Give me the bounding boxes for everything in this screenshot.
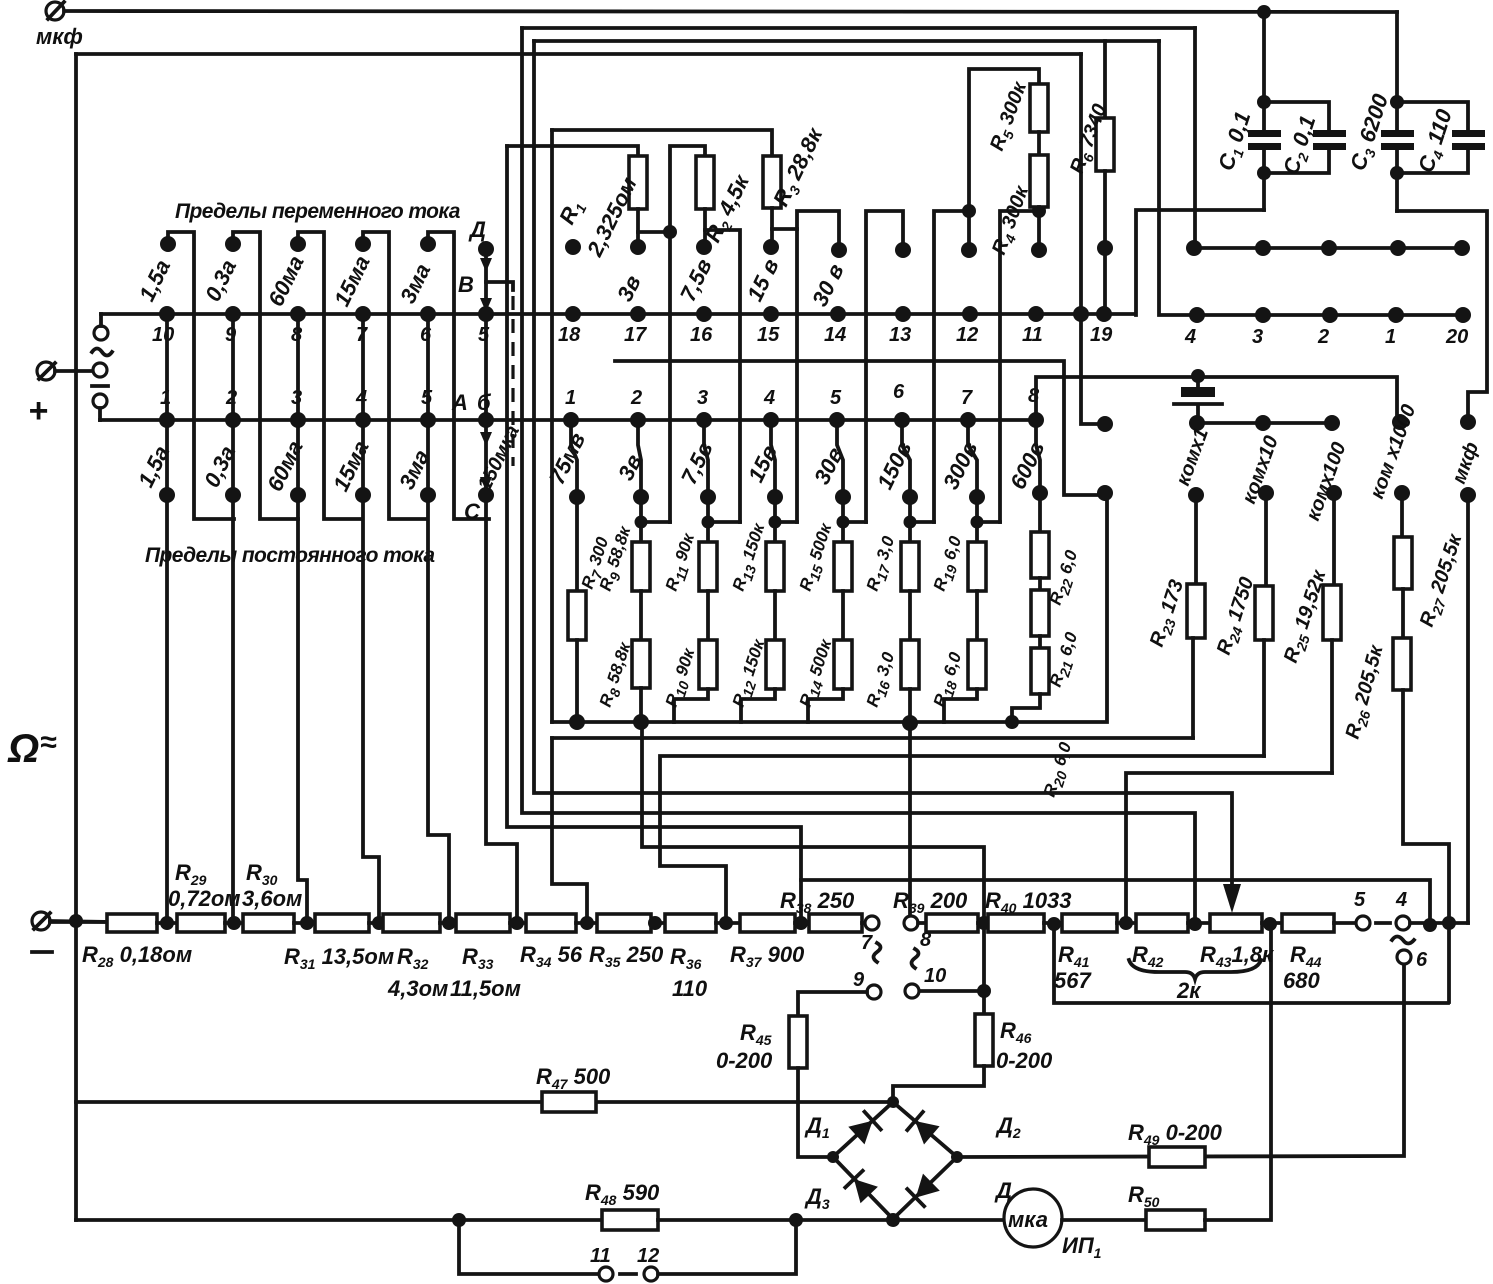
DC range dots y=495 and vertical feeds <box>159 487 436 503</box>
svg-text:4: 4 <box>1184 326 1196 348</box>
svg-text:R48 590: R48 590 <box>585 1180 660 1208</box>
capacitor C3 <box>1345 12 1414 211</box>
svg-text:2: 2 <box>1317 326 1329 348</box>
svg-text:R34 56: R34 56 <box>520 942 583 970</box>
resistor R35 with label <box>589 914 665 970</box>
symbol ~ above contact 6 <box>1392 937 1414 944</box>
node junction rail/R45 loop x=459 <box>452 1213 466 1227</box>
wire lower contact row y=420 <box>100 418 1036 422</box>
wire left frame vertical x=76 (y54 bus down to minus bus and bottom rail) <box>74 54 78 1220</box>
terminal мкф (top left) <box>36 2 83 49</box>
contact 6 open circle <box>1397 949 1428 971</box>
resistor R42 with label <box>1132 914 1210 970</box>
selector contact ~ (left) <box>92 314 112 356</box>
upper row contact dots middle group <box>558 306 1113 346</box>
svg-text:2: 2 <box>225 387 237 409</box>
wire box outline bottom y=1003 <box>1054 924 1448 1003</box>
svg-text:12: 12 <box>637 1245 659 1267</box>
svg-text:R47 500: R47 500 <box>536 1064 611 1092</box>
svg-text:4: 4 <box>355 387 367 409</box>
rotated labels above middle upper contacts <box>612 255 849 310</box>
terminal + (left) <box>28 362 55 430</box>
capacitor C4 parallel loop <box>1397 102 1485 176</box>
svg-text:В: В <box>458 272 474 297</box>
svg-text:16: 16 <box>690 324 713 346</box>
svg-text:С: С <box>464 499 481 524</box>
svg-text:5: 5 <box>478 324 490 346</box>
svg-text:19: 19 <box>1090 324 1113 346</box>
svg-text:+: + <box>28 392 48 430</box>
svg-text:11: 11 <box>590 1245 611 1267</box>
resistor R39 with label <box>893 888 988 932</box>
resistor R40 with label <box>985 888 1072 932</box>
resistor R45 with label <box>716 1016 826 1157</box>
resistor R47 with label <box>536 1064 611 1112</box>
upper row contact dots left group <box>152 306 494 346</box>
wire battery bottom row y=423 <box>1198 421 1332 425</box>
wire fan F6 y=827 from x=507 to R37/R38 junction drop <box>507 146 801 916</box>
lower row contact dots middle group with numbers <box>563 381 1044 428</box>
node junction loop/rail x=969 <box>962 204 976 218</box>
resistors R17/R16 column 150в <box>863 420 934 722</box>
wire contacts 11-12 bypass loop <box>459 1220 599 1274</box>
node R4 bottom dot <box>1031 242 1047 258</box>
wire C1C2 bottom line y=210 to x=1136 and down to contact row <box>1136 210 1264 315</box>
lower row contact dots left group with numbers <box>159 387 494 428</box>
svg-text:3: 3 <box>697 387 708 409</box>
svg-text:R40 1033: R40 1033 <box>985 888 1072 916</box>
resistor R26 with leads and label <box>1342 638 1449 1002</box>
svg-text:≈: ≈ <box>40 726 57 759</box>
svg-text:10: 10 <box>924 965 946 987</box>
svg-text:11,5ом: 11,5ом <box>450 976 521 1001</box>
node junction R31/R32 <box>372 916 386 930</box>
wire shunt column 5 (x=428) with jog to R32/R33 junction <box>428 314 449 923</box>
rotated labels lower row voltages <box>544 429 1049 494</box>
battery Б1 <box>1174 376 1222 423</box>
resistor R33 with label <box>450 914 526 1001</box>
node ohm row dots <box>1186 240 1470 256</box>
svg-text:18: 18 <box>558 324 581 346</box>
resistor R1 with label <box>507 146 647 261</box>
svg-text:R49 0-200: R49 0-200 <box>1128 1120 1223 1148</box>
svg-text:6: 6 <box>1416 949 1428 971</box>
rotated labels ohm ranges <box>1172 402 1483 524</box>
node C2 bottom junction <box>1257 166 1271 180</box>
wire riser x=1081: y54 bus down through row junction to stub dot <box>1081 54 1100 424</box>
wire bus y=28 from x=522 to x=1195 <box>522 26 1195 30</box>
svg-text:б: б <box>477 390 492 415</box>
resistor R24 with leads and label <box>1213 485 1274 756</box>
svg-text:R37 900: R37 900 <box>730 942 805 970</box>
node 7,5в tap dot under R2 <box>696 239 712 255</box>
wire upper contact row y=314 <box>101 312 1135 316</box>
resistors R22/R21/R20 column 600в <box>1012 420 1085 800</box>
resistor R7 column 75мв <box>568 420 616 722</box>
wiper А б with arrows to С <box>451 390 524 524</box>
svg-text:6: 6 <box>893 381 905 403</box>
diode Д1 <box>804 1112 881 1145</box>
node мкф ohm contact <box>1460 414 1476 430</box>
wire minus bus from terminal to R28 <box>50 921 110 922</box>
resistor R43 potentiometer with label <box>1200 914 1282 970</box>
svg-text:7: 7 <box>861 932 873 954</box>
wiper В tick and dashed gang link x=513 <box>458 272 513 466</box>
node C4 top junction <box>1390 95 1404 109</box>
node C4 bottom junction <box>1390 166 1404 180</box>
svg-text:110: 110 <box>672 976 708 1001</box>
svg-text:20: 20 <box>1445 326 1468 348</box>
resistors R11/R10 column 7,5в <box>662 420 740 722</box>
svg-text:2к: 2к <box>1176 978 1202 1003</box>
wire ohm dots row y=248 <box>1194 246 1462 250</box>
capacitor C1 <box>1213 12 1281 210</box>
wire wiper shaft contact5 to б <box>484 314 488 420</box>
contact 4 open circle <box>1395 889 1410 930</box>
resistor R41 with label <box>1054 914 1136 993</box>
wire meter to R50 <box>1062 1218 1146 1222</box>
resistor R36 with label <box>665 914 740 1001</box>
node junction R32/R33 <box>442 916 456 930</box>
node 15в tap dot under R3 <box>763 239 779 255</box>
node junction minus bus / left frame <box>69 914 83 928</box>
wire riser x=1159 down to right contact row <box>1159 41 1463 315</box>
wire R1 bottom branch to riser x=670 <box>638 230 670 234</box>
resistors R13/R12 column 15в <box>729 420 797 722</box>
node ком х1000 contact <box>1392 414 1408 430</box>
svg-text:3,6ом: 3,6ом <box>242 886 302 911</box>
node junction R43/R44 <box>1263 917 1277 931</box>
terminal - (bottom left) <box>32 912 52 952</box>
svg-text:Ω: Ω <box>7 727 39 771</box>
AC range contact 0,3а with loop <box>200 232 298 519</box>
rotated labels DC ranges <box>133 437 434 496</box>
wire box outline top y=880 <box>801 880 1430 918</box>
node ком х10 contact <box>1255 415 1271 431</box>
node junction R37/R38 box drop <box>794 916 808 930</box>
diode bridge: frame <box>827 1096 963 1227</box>
node omega label <box>7 726 57 771</box>
resistor R3 with label <box>552 122 831 244</box>
node 30в stub dot <box>831 242 847 258</box>
node C2 top junction <box>1257 95 1271 109</box>
wire riser x=1195 down to ohm dots row <box>1193 28 1197 248</box>
svg-text:3: 3 <box>1252 326 1263 348</box>
svg-text:12: 12 <box>956 324 978 346</box>
svg-text:9: 9 <box>225 324 237 346</box>
diode Д2 <box>907 1112 1021 1145</box>
contact 8 open circle <box>904 916 932 951</box>
node stub contact (1107,493) <box>1097 485 1113 501</box>
wire U-bridge 3: network riser x=934 over to R4 loop leg <box>934 211 969 522</box>
svg-text:Д: Д <box>468 217 486 242</box>
resistor R46 with label <box>893 1014 1053 1102</box>
resistor R27 with leads and label <box>1394 485 1469 638</box>
node junction R34/R35 <box>580 916 594 930</box>
link squiggle 8-10 <box>912 949 919 968</box>
resistor R48 with label <box>585 1180 660 1230</box>
node junction R30/R31 <box>300 916 314 930</box>
node stub dot x=903 <box>895 242 911 258</box>
svg-text:1: 1 <box>565 387 576 409</box>
resistors R15/R14 column 30в <box>796 420 866 722</box>
node battery top junction <box>1191 369 1205 383</box>
wiper Д with arrows to contact 5 <box>468 217 494 314</box>
wire shunt column 2 (x=233) <box>231 314 235 923</box>
wire fan F3 y=773 R41/R42 junction riser to R25 <box>1126 773 1332 924</box>
resistor R37 with label <box>730 914 809 970</box>
svg-text:14: 14 <box>824 324 846 346</box>
wire contact8 riser to battery line y=377 <box>1036 377 1397 420</box>
wire top bus y=12 from мкф terminal to x=1397 <box>64 11 1397 12</box>
svg-text:R38 250: R38 250 <box>780 888 855 916</box>
wire U-bridge 4: network riser x=1000 over to R4 column <box>1000 211 1039 522</box>
wire network bottom bus y=722 <box>552 500 1107 722</box>
svg-text:0-200: 0-200 <box>716 1048 773 1073</box>
wire R47 rail y=1102 from left frame to bridge top <box>76 1100 891 1104</box>
svg-text:10: 10 <box>152 324 174 346</box>
resistors R9/R8 column 3в <box>596 420 670 722</box>
resistor R29 with label <box>168 860 243 932</box>
wiper arrow into R43 <box>1223 884 1241 913</box>
wire contact 4 to risers <box>1410 921 1468 925</box>
node junction R33/R34 <box>510 916 524 930</box>
resistor R32 with label <box>383 914 456 1001</box>
node junction R39/R40 <box>977 916 991 930</box>
svg-text:680: 680 <box>1283 968 1320 993</box>
svg-text:17: 17 <box>624 324 647 346</box>
resistor R6 with label <box>1066 41 1114 312</box>
meter ИП1 <box>1004 1189 1102 1261</box>
wire fan F2 y=738 from x=552 to R23 bottom lead <box>552 736 1193 740</box>
node junction R26 riser / contact 4 line <box>1442 916 1456 930</box>
resistor R50 with label <box>1128 1182 1205 1230</box>
wire x=552 lower segment to R34/R35 junction <box>552 738 587 923</box>
diode Д4 <box>907 1174 1020 1207</box>
node junction riser/R1 branch <box>663 225 677 239</box>
wire R2 bottom branch to riser x=740 <box>705 230 740 522</box>
wire bus y=54 from left frame to x=1081 <box>76 52 1081 56</box>
wire shunt column 3 (x=298) with jog to R30/R31 junction <box>298 314 307 923</box>
svg-text:11: 11 <box>1022 324 1043 346</box>
node junction R28/R29 <box>160 916 174 930</box>
svg-text:мка: мка <box>1008 1207 1048 1232</box>
svg-text:6: 6 <box>420 324 432 346</box>
svg-text:Пределы переменного тока: Пределы переменного тока <box>175 200 461 223</box>
resistor R4 with label <box>988 155 1048 259</box>
resistor R28 with label <box>82 914 192 970</box>
resistor R25 with leads and label <box>1280 485 1342 773</box>
svg-text:4: 4 <box>763 387 775 409</box>
svg-text:567: 567 <box>1054 968 1092 993</box>
wire мкф contact column down to switch 4 line <box>1460 487 1476 923</box>
wire C3 bottom to right edge and down to ohm contact мкф <box>1397 211 1487 415</box>
brace 2к under R42-R43 <box>1129 960 1261 1003</box>
resistor R5 with label <box>986 78 1048 155</box>
contact 9 open circle and stub to R45 <box>798 969 881 1016</box>
wire fan F4 y=793 from x=534 to R43 wiper arrow <box>534 41 1232 898</box>
AC range contact 15ма with loop <box>329 232 425 519</box>
svg-text:4,3ом: 4,3ом <box>387 976 448 1001</box>
resistor R31 with label <box>284 914 394 972</box>
AC range contact 60ма with loop <box>263 232 361 519</box>
svg-text:4: 4 <box>1395 889 1407 911</box>
contact 5 open circle <box>1354 889 1370 930</box>
resistor R38 with label <box>780 888 865 932</box>
svg-text:9: 9 <box>853 969 865 991</box>
wire R3 bottom branch to riser x=797 <box>772 227 797 231</box>
node junction R41/R42 <box>1119 916 1133 930</box>
link squiggle 7-9 <box>874 943 881 962</box>
node wiper rest dot above contact 18 <box>565 239 581 255</box>
svg-text:А: А <box>451 390 468 415</box>
node R6 bottom dot <box>1097 240 1113 256</box>
node 3в tap dot under R1 <box>630 239 646 255</box>
AC range contact 3ма with loop <box>395 232 489 519</box>
wire cross line y=361 to stub dot (1107,493) <box>615 361 1100 495</box>
upper row contact dots right group <box>1184 307 1471 348</box>
svg-text:8: 8 <box>1028 385 1040 407</box>
resistor R34 with label <box>520 914 597 970</box>
node junction R35/R36 <box>648 916 662 930</box>
node ком х100 contact <box>1324 415 1340 431</box>
svg-text:13: 13 <box>889 324 911 346</box>
wire shunt column 1 (x=167) upper dot to lower to R28/R29 junction <box>165 314 169 923</box>
node junction R40/R41 box drop <box>1047 917 1061 931</box>
svg-text:R431,8к: R431,8к <box>1200 942 1275 970</box>
svg-text:2: 2 <box>630 387 642 409</box>
wire cluster vertical x=550 (R3 line) down to bus <box>550 130 554 722</box>
capacitor C2 parallel loop <box>1264 102 1346 178</box>
svg-text:0-200: 0-200 <box>996 1048 1053 1073</box>
resistor R44 with label <box>1282 914 1356 993</box>
wire R4/R5 loop leg x=969 <box>969 69 1039 250</box>
wire U-bridge 2: network riser x=866 over to tap dot x=903 <box>866 211 903 522</box>
node junction R29/R30 <box>227 916 241 930</box>
node С wiper dot <box>478 487 494 503</box>
node junction x=984 y=991 <box>977 984 991 998</box>
resistor R23 with leads and label <box>1146 487 1205 738</box>
node junction rail x=796 <box>789 1213 803 1227</box>
resistor R30 with label <box>242 860 315 932</box>
wire bottom rail continuation R48 to bridge bottom and meter <box>658 1218 1003 1222</box>
wire fan F5 y=813 from x=522 to R42/R43 junction <box>522 28 1195 924</box>
wire riser x=670: R2 top loop down to R9 stub <box>670 146 705 522</box>
selector contact mid (left) <box>93 363 107 377</box>
svg-text:Пределы постоянного тока: Пределы постоянного тока <box>145 544 435 567</box>
node stub contact (1107,424) <box>1097 416 1113 432</box>
wire bus y=41 from x=534 to x=1159 <box>534 39 1159 43</box>
node C1 top junction on top bus <box>1257 5 1271 19</box>
svg-text:5: 5 <box>830 387 842 409</box>
wire fan F8 y=852 R8 column to R39/R40 junction and contact 10 <box>642 722 984 1014</box>
node stub dot x=969 <box>961 242 977 258</box>
wire bottom resistor row rail y=923 <box>50 920 107 924</box>
node bus dots <box>569 714 1019 731</box>
contact 7 open circle <box>861 916 879 954</box>
contact 10 open circle <box>905 965 946 998</box>
wire + terminal to selector contact <box>55 369 93 373</box>
svg-text:0,72ом: 0,72ом <box>168 886 241 911</box>
diode Д3 <box>804 1171 878 1212</box>
node junction R36/R37 <box>719 916 733 930</box>
node ком х1 contact <box>1189 415 1205 431</box>
wire U-bridge 1: network riser x=797 over to 30в stub dot <box>797 211 839 522</box>
node junction R42/R43 <box>1188 917 1202 931</box>
resistor R2 with label <box>696 156 757 248</box>
AC range contact 1,5а with loop <box>134 232 234 519</box>
svg-text:R39 200: R39 200 <box>893 888 968 916</box>
wire shunt column 4 (x=363) with jog to R31/R32 junction <box>363 314 379 923</box>
svg-text:7: 7 <box>961 387 973 409</box>
svg-text:15: 15 <box>757 324 780 346</box>
dash between 5 and 4 <box>1376 921 1390 925</box>
svg-text:5: 5 <box>1354 889 1366 911</box>
resistors R19/R18 column 300в <box>930 420 1000 722</box>
wire R50 to riser x=1271 up to R43/R44 junction <box>1205 924 1271 1220</box>
wire R49 rail from bridge right vertex to contact 6 <box>957 965 1404 1157</box>
svg-text:1: 1 <box>1385 326 1396 348</box>
resistor R49 with label <box>1128 1120 1223 1167</box>
node junction box top drop <box>1423 918 1437 932</box>
wire С column down to fan y=844 then to R33/R34 junction <box>486 495 517 923</box>
selector contact - (left) <box>92 386 108 420</box>
svg-text:мкф: мкф <box>36 24 83 49</box>
wire fan F2b y=756 R24 to R36/R37 junction riser <box>660 756 1264 923</box>
wire bus drop x=908 to contact 7 area <box>908 723 912 915</box>
wire bottom rail y=1220 from left frame to R48 and bridge <box>76 1218 602 1222</box>
wire contact 10 stub <box>919 989 984 993</box>
svg-text:R35 250: R35 250 <box>589 942 664 970</box>
